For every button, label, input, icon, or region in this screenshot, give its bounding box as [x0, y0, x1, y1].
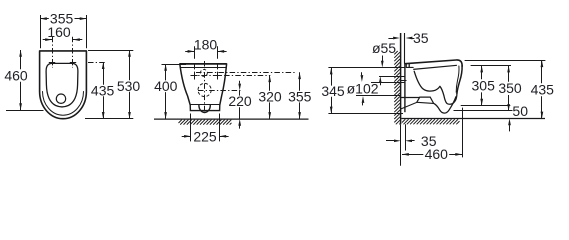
svg-text:435: 435: [531, 82, 555, 98]
dim 530 line+arrows: [128, 50, 131, 119]
side view: pan top ext line (350/305): [471, 65, 511, 67]
dim 50 text: [512, 103, 528, 119]
svg-text:530: 530: [117, 78, 141, 94]
front view: left side: [180, 64, 190, 105]
side view: pan back edge: [404, 63, 406, 112]
side view: bracket top line: [401, 97, 420, 99]
dim 160 arrows: [43, 38, 83, 41]
svg-text:345: 345: [321, 83, 345, 99]
dim ø55 text: [372, 40, 396, 56]
side view: wall seal line: [401, 80, 407, 82]
side view: wall ext below right: [405, 124, 407, 150]
dim 35bottom text: [421, 133, 437, 149]
left view: inner rim curve: [43, 92, 84, 116]
front view: hole cross right: [214, 72, 220, 78]
svg-text:320: 320: [258, 88, 282, 104]
dim 355f line+arrows: [298, 72, 301, 119]
dim 180 ticks: [195, 46, 218, 59]
svg-text:160: 160: [47, 24, 71, 40]
side view: front inner lip: [456, 66, 459, 92]
dim ø55 lower arrow: [379, 76, 382, 85]
dim 435L text: [91, 82, 115, 98]
left view: bottom extension: [85, 118, 133, 120]
dim 220 upper arrow: [238, 81, 241, 91]
front view: rim second line: [180, 67, 226, 69]
svg-text:35: 35: [413, 30, 429, 46]
dim 220 lower arrow: [238, 119, 241, 129]
front view: bottom shelf line: [190, 104, 220, 106]
side view: floor line: [401, 118, 545, 120]
side view: seat top ext line (435): [465, 60, 546, 62]
dim 400 text: [154, 78, 178, 94]
svg-text:460: 460: [425, 146, 449, 162]
dim 225 ticks: [191, 114, 220, 142]
left view: top extension: [88, 50, 133, 52]
dim 435L line+arrows: [102, 62, 105, 119]
svg-text:180: 180: [194, 37, 218, 53]
dim 35top arrows: [388, 37, 414, 40]
left view: hole cross left: [49, 59, 55, 65]
dim 460 ext line front: [462, 108, 464, 158]
side view: pan back bottom ext line: [328, 113, 403, 115]
dim 320 text: [258, 88, 282, 104]
dim ø55 upper arrow: [381, 56, 384, 68]
centerline 220 level: [198, 90, 240, 92]
side view: seat rim line: [413, 65, 457, 69]
dim 355 text: [50, 11, 74, 27]
dim 35bottom arrows: [386, 139, 415, 142]
svg-text:ø102: ø102: [347, 80, 379, 96]
left view: pan outer outline: [40, 51, 87, 119]
side view: 305 bottom line: [461, 105, 511, 107]
front view: ø102 outlet circle (hidden): [198, 83, 211, 96]
dim 400 extension: [162, 64, 187, 66]
front view: trapway bulge: [199, 105, 210, 112]
side view: 50 top line: [454, 110, 513, 112]
side view: floor hatch: [402, 119, 460, 124]
dim 350 line+arrows: [507, 66, 510, 111]
front view: hole cross left: [191, 72, 197, 78]
side view: front face: [457, 66, 462, 94]
side view: inner bowl and weir: [414, 71, 457, 104]
side view: outlet diagonal: [401, 102, 433, 109]
dim 305 text: [472, 78, 496, 94]
dim 460 line+arrows: [402, 153, 462, 156]
dim 220 text: [228, 93, 252, 109]
svg-text:305: 305: [472, 78, 496, 94]
dim 460 bottom extension: [6, 110, 44, 112]
dim 225 arrows: [182, 135, 229, 138]
side view: wall face line: [400, 33, 402, 124]
dim 50 lower arrow: [508, 118, 511, 131]
left view: bowl opening: [46, 63, 78, 106]
dim 435R text: [531, 82, 555, 98]
dim 355 extension lines: [41, 15, 87, 48]
dim 345 text: [321, 83, 345, 99]
dim ø102 lower arrow: [362, 96, 365, 105]
svg-text:400: 400: [154, 78, 178, 94]
dim 350 text: [498, 80, 522, 96]
front view: hole centerline right: [217, 64, 219, 80]
left view: hole centerlines (vertical): [53, 37, 73, 68]
side view: pipe top line (345 ext / ø55 top): [328, 67, 404, 69]
front view: hole centerline left: [194, 64, 196, 80]
centerline 320 level: [191, 75, 271, 77]
dim 400 line+arrows: [164, 64, 167, 119]
front view: floor line: [154, 118, 309, 120]
svg-text:220: 220: [228, 93, 252, 109]
side view: ø102 top line: [371, 82, 405, 84]
svg-text:435: 435: [91, 82, 115, 98]
side view: outer underside: [434, 97, 456, 113]
dim 160 text: [47, 24, 71, 40]
dim 320 line+arrows: [268, 75, 271, 119]
side view: ø55 bottom line: [379, 76, 405, 78]
dim 305 line+arrows: [480, 66, 483, 106]
dim 530 text: [117, 78, 141, 94]
svg-text:ø55: ø55: [372, 40, 396, 56]
dim 460 line+arrows: [19, 50, 22, 110]
front view: ø55 inlet circle (hidden): [200, 69, 207, 76]
front view: vertical centerline: [204, 61, 206, 111]
svg-text:225: 225: [193, 128, 217, 144]
svg-text:355: 355: [288, 88, 312, 104]
side view: outlet trapezoid: [417, 97, 434, 103]
left view: hole cross right: [70, 59, 76, 65]
front view: right side: [220, 64, 227, 105]
dim ø102 upper arrow: [361, 72, 364, 82]
svg-text:350: 350: [498, 80, 522, 96]
left view: centerline to 435 dim: [88, 62, 107, 64]
dim 180 arrows: [185, 50, 226, 53]
side view: seat hinge step: [406, 64, 413, 68]
side view: cover top: [405, 60, 462, 66]
left view: drain circle: [56, 94, 65, 103]
front view: floor hatch: [179, 120, 232, 125]
front view: bottom band: [190, 105, 220, 111]
side view: ø102 bottom line: [356, 95, 401, 97]
dim ø102 text: [347, 80, 379, 96]
side view: wall second line: [404, 33, 406, 63]
dim 345 line+arrows: [330, 68, 333, 114]
centerline 355 level: [196, 72, 295, 74]
dim 460 bottom text: [425, 146, 449, 162]
dim 435R line+arrows: [541, 60, 544, 118]
dim 460 text: [4, 67, 28, 83]
front view: top edge: [180, 63, 227, 65]
dim 225 text: [193, 128, 217, 144]
side view: wall ext below left: [400, 124, 402, 166]
svg-text:50: 50: [512, 103, 528, 119]
svg-text:460: 460: [4, 67, 28, 83]
dim 220 stubs: [239, 90, 241, 119]
dim 180 text: [194, 37, 218, 53]
side view: wall hatch: [394, 51, 400, 124]
dim 355 line+arrows: [40, 17, 87, 20]
dim 35top text: [413, 30, 429, 46]
dim 355f text: [288, 88, 312, 104]
